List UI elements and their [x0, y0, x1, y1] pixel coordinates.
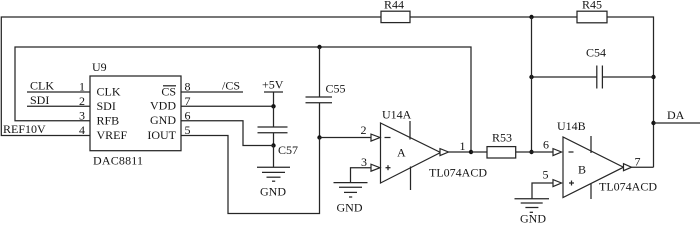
- wire node X column: [531, 17, 533, 152]
- resistor R45: [577, 0, 607, 23]
- svg-text:REF10V: REF10V: [3, 122, 46, 136]
- wire RFB feedback loop: [15, 47, 471, 152]
- svg-text:DAC8811: DAC8811: [93, 154, 143, 168]
- junction dot C57 bottom: [271, 143, 275, 147]
- svg-text:DA: DA: [667, 108, 685, 122]
- wire GND pin 6: [181, 121, 274, 146]
- svg-text:1: 1: [79, 80, 85, 94]
- wire CLK: [27, 91, 90, 93]
- resistor R44: [381, 0, 410, 23]
- wire REF10V loop (top row, left border, VREF row): [1, 17, 381, 136]
- svg-text:C54: C54: [586, 46, 606, 60]
- svg-text:6: 6: [543, 138, 549, 152]
- wire SDI: [27, 105, 90, 107]
- wire pin 3 from ground: [351, 168, 372, 183]
- svg-text:5: 5: [543, 168, 549, 182]
- svg-text:R44: R44: [384, 0, 404, 12]
- junction dot node X top: [529, 15, 533, 19]
- resistor R53: [487, 131, 516, 159]
- svg-text:B: B: [578, 163, 586, 177]
- wire U14B output: [632, 166, 654, 168]
- svg-text:7: 7: [635, 155, 641, 169]
- junction dot VDD node: [271, 104, 275, 108]
- svg-text:4: 4: [79, 123, 85, 137]
- chip U9 DAC8811: [79, 60, 191, 168]
- svg-text:GND: GND: [260, 185, 286, 199]
- svg-text:CS: CS: [161, 84, 176, 98]
- wire IOUT pin 5 routing: [181, 136, 320, 214]
- junction dot inverting input node: [317, 135, 321, 139]
- svg-text:1: 1: [460, 139, 466, 153]
- svg-text:GND: GND: [520, 212, 546, 226]
- wire R45 to output column: [607, 17, 654, 167]
- svg-text:+5V: +5V: [262, 78, 284, 92]
- svg-text:C55: C55: [326, 82, 346, 96]
- capacitor C55: [306, 47, 346, 138]
- ground (U14B pin 5): [515, 199, 550, 226]
- svg-text:3: 3: [361, 155, 367, 169]
- svg-text:TL074ACD: TL074ACD: [429, 165, 487, 179]
- svg-text:2: 2: [79, 94, 85, 108]
- svg-text:GND: GND: [337, 201, 363, 215]
- svg-text:VREF: VREF: [97, 128, 128, 142]
- ground (U14A pin 3): [334, 183, 368, 215]
- wire R53 to node X: [516, 151, 532, 153]
- svg-text:2: 2: [361, 123, 367, 137]
- svg-text:/CS: /CS: [222, 79, 240, 93]
- svg-text:R53: R53: [492, 131, 512, 145]
- junction dot node X bottom: [529, 150, 533, 154]
- junction dot DA node: [651, 121, 655, 125]
- svg-text:3: 3: [79, 108, 85, 122]
- svg-text:U9: U9: [92, 60, 107, 74]
- wire pin 5 from ground: [532, 183, 553, 199]
- svg-text:CLK: CLK: [97, 85, 121, 99]
- svg-text:U14B: U14B: [557, 119, 586, 133]
- svg-text:U14A: U14A: [382, 108, 412, 122]
- ground (C57): [257, 146, 290, 199]
- op-amp U14B: [553, 119, 657, 199]
- svg-text:SDI: SDI: [97, 99, 116, 113]
- svg-text:IOUT: IOUT: [147, 128, 176, 142]
- svg-text:C57: C57: [278, 143, 298, 157]
- junction dot C54 left: [529, 75, 533, 79]
- junction dot C55 top: [317, 45, 321, 49]
- wire to U14B inverting input: [532, 151, 554, 153]
- capacitor C57: [258, 106, 299, 157]
- wire R44 to R45: [410, 16, 577, 18]
- svg-text:SDI: SDI: [30, 93, 49, 107]
- svg-text:TL074ACD: TL074ACD: [599, 180, 657, 194]
- svg-text:A: A: [397, 146, 406, 160]
- svg-text:GND: GND: [150, 113, 176, 127]
- op-amp U14A: [371, 108, 487, 191]
- svg-text:RFB: RFB: [97, 113, 120, 127]
- wire /CS stub pin 8: [181, 91, 243, 93]
- power +5V: [262, 78, 284, 107]
- junction dot C54 right: [651, 75, 655, 79]
- svg-text:CLK: CLK: [30, 79, 54, 93]
- svg-text:R45: R45: [582, 0, 602, 12]
- wire to R53: [471, 151, 487, 153]
- junction dot U14A output node: [469, 150, 473, 154]
- wire U14A output: [449, 151, 472, 153]
- capacitor C54: [532, 46, 654, 89]
- svg-text:VDD: VDD: [150, 99, 176, 113]
- wire VDD pin 7: [181, 105, 274, 107]
- wire DA stub: [654, 122, 700, 124]
- wire to U14A inverting input: [320, 137, 372, 139]
